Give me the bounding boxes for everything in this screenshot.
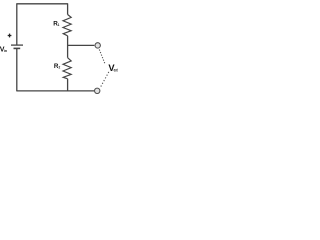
svg-text:in: in <box>4 49 7 53</box>
svg-text:2: 2 <box>59 65 61 69</box>
svg-text:1: 1 <box>58 23 60 27</box>
svg-text:out: out <box>114 67 118 72</box>
